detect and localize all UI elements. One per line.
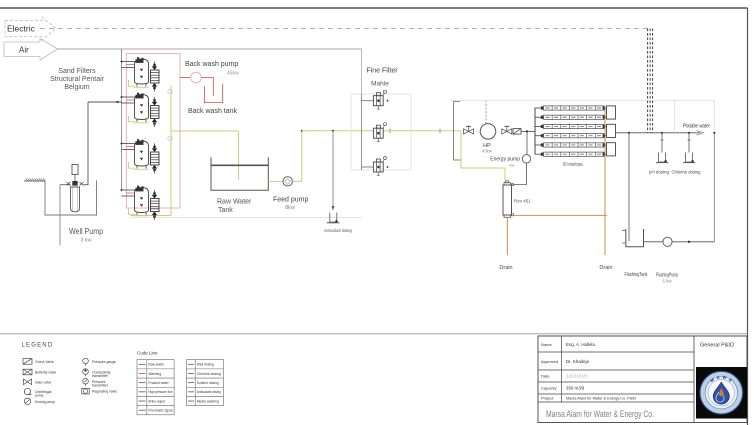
code line sample Antiscalant dosing — [188, 391, 194, 393]
code line sample Washing — [139, 372, 146, 374]
sand filter bottom header — [131, 215, 171, 217]
well pump suction stub — [60, 184, 71, 186]
svg-text:transmitter: transmitter — [92, 374, 109, 378]
group boundary divider — [674, 100, 676, 133]
membrane row M4 feed stub — [535, 135, 544, 137]
membrane row M4 vessel tube — [544, 134, 605, 138]
fine filter inlet manifold — [361, 94, 363, 170]
sand filter SF2 bottom air pipe — [134, 122, 149, 124]
svg-text:Dosing pump: Dosing pump — [35, 400, 55, 404]
fine filter FF3 body — [373, 162, 383, 172]
svg-text:Chlorine dosing: Chlorine dosing — [197, 372, 221, 376]
pressure exchanger vessel — [503, 185, 512, 215]
sand filter SF4 air lateral — [129, 209, 136, 215]
legend area divider line — [0, 333, 748, 335]
raw water tank — [211, 157, 268, 190]
svg-text:kw: kw — [510, 163, 515, 168]
antiscalant dosing drop line — [332, 131, 334, 210]
membrane row M2 outlet nub — [603, 116, 606, 119]
feed pump discharge pipe — [292, 131, 301, 182]
sand filter SF2 backwash stub — [126, 99, 134, 101]
membrane row M3 outlet nub — [603, 125, 606, 128]
fine filter FF2 cap — [376, 125, 380, 128]
code line sample Media washing — [188, 400, 194, 402]
legend symbol gate valve — [24, 379, 32, 385]
sand filter SF4 legs — [136, 213, 138, 216]
sand filter SF2 inlet line 2 — [122, 102, 136, 104]
sand filter SF1 inlet line 2 — [122, 67, 136, 69]
legend symbol butterfly valve — [23, 369, 32, 375]
sand filter SF4 strainer inlet cone — [152, 195, 157, 199]
svg-text:8kw: 8kw — [285, 205, 295, 211]
sand filter SF1 backwash stub — [126, 64, 134, 66]
legend symbol pressure transmitter — [83, 378, 89, 384]
HP pump electric dashed drop — [485, 100, 487, 123]
inlet valve V1 — [464, 129, 474, 134]
company logo water drop — [713, 382, 729, 404]
company logo middle ring — [705, 377, 737, 409]
sand filter SF1 top valve cluster — [136, 59, 144, 63]
svg-text:5 kw: 5 kw — [662, 279, 672, 284]
check valve — [513, 129, 521, 135]
raw water tank water level line — [211, 164, 268, 166]
fine filter FF1 cap — [376, 93, 380, 96]
HP pump — [480, 124, 496, 140]
svg-text:350 m3/d: 350 m3/d — [566, 386, 585, 391]
svg-text:transmitter: transmitter — [92, 384, 109, 388]
sand filter SF1 lower distributor — [140, 76, 143, 79]
fine filter FF3 cap — [376, 159, 380, 162]
instrument bubble B2 — [168, 136, 172, 140]
svg-text:Date: Date — [541, 374, 550, 379]
brine line PX to drain manifold — [514, 214, 608, 216]
fine filter FF3 internals — [376, 162, 378, 172]
fine filter FF1 drain stub — [377, 106, 379, 109]
membrane row M3 outlet stub — [604, 125, 607, 127]
title block outline — [538, 336, 747, 423]
backwash pump P-BW — [191, 72, 202, 83]
company logo inner drop — [716, 392, 724, 402]
membrane row M6 feed stub — [535, 153, 544, 155]
membrane U-bend cap rows 1-2 — [607, 106, 616, 119]
membrane concentrate drain line — [604, 107, 606, 256]
sand filter SF1 inlet junction — [121, 61, 123, 63]
svg-text:RO membrane: RO membrane — [563, 162, 583, 168]
membrane row M1 vessel tube — [544, 106, 605, 110]
product dosing drop 2 — [688, 132, 690, 134]
backwash supply pipe from filter box — [180, 77, 191, 79]
feed discharge junction — [301, 130, 303, 132]
sand filter SF3 lower distributor — [140, 158, 143, 161]
flushing tank — [626, 229, 644, 247]
svg-text:High pressure line: High pressure line — [148, 390, 172, 394]
sand filter SF2 vessel — [135, 95, 149, 120]
energy recovery feed line — [461, 131, 505, 183]
svg-text:Raw Water: Raw Water — [217, 199, 252, 206]
svg-text:pH dosing: pH dosing — [649, 170, 669, 175]
svg-text:Back wash tank: Back wash tank — [188, 108, 238, 115]
sand filter SF1 strainer top connector — [154, 62, 156, 67]
sand filter SF1 air lateral — [129, 80, 136, 86]
membrane row M5 outlet nub — [603, 143, 606, 146]
pipe check valve to membranes — [521, 130, 535, 132]
sand filter SF2 air lateral — [129, 116, 136, 122]
code line sample High pressure line — [139, 391, 146, 393]
drawing frame right border — [747, 8, 749, 425]
sand filter SF2 strainer top connector — [154, 97, 156, 102]
code line sample Pneumatic signal — [139, 409, 146, 411]
raw water tank inlet drop — [238, 131, 240, 180]
energy pump to PX pipe — [513, 163, 527, 185]
title block row lines — [538, 351, 694, 353]
legend symbol conductivity transmitter — [83, 369, 89, 375]
code line table 2 — [186, 360, 223, 406]
sand filter SF1 legs — [136, 84, 138, 87]
sand filter SF4 inlet line 2 — [122, 195, 136, 197]
drawing frame top border — [0, 7, 748, 9]
svg-text:Drain: Drain — [599, 265, 612, 271]
sand filter SF3 strainer inlet cone — [152, 148, 157, 152]
membrane row M1 outlet nub — [603, 106, 606, 109]
backwash tank symbol — [204, 84, 222, 103]
sand filter SF1 vessel — [135, 59, 149, 84]
svg-text:Pressure gauge: Pressure gauge — [92, 360, 116, 364]
dosing cup 1 — [659, 153, 666, 163]
sand filter SF3 air lateral — [129, 162, 136, 168]
membrane row M6 outlet nub — [603, 153, 606, 156]
svg-text:Mahle: Mahle — [371, 81, 389, 88]
PX drain drop — [506, 217, 508, 255]
sand filter SF4 vessel — [135, 188, 149, 213]
membrane row M3 vessel tube — [544, 124, 605, 128]
dosing branch junction — [332, 130, 334, 132]
fine filter FF1 internals — [376, 96, 378, 106]
legend symbol check valve — [23, 359, 32, 365]
dosing cup 2 — [686, 153, 693, 163]
svg-text:12/11/2020: 12/11/2020 — [566, 374, 588, 379]
code line sample Chlorine dosing — [188, 372, 194, 374]
sand filter SF1 strainer inlet cone — [152, 66, 157, 70]
sand filter SF3 inlet line 1 — [122, 143, 136, 145]
membrane U-bend cap rows 3-4 — [607, 124, 616, 137]
fine filter FF3 branch stub — [362, 166, 374, 168]
code line sample Brine reject — [139, 400, 146, 402]
instrument bubble B1 — [168, 89, 172, 93]
svg-text:Pneumatic signal: Pneumatic signal — [148, 409, 172, 413]
sand filter SF4 inlet line 1 — [122, 189, 136, 191]
backwash boundary box — [126, 54, 180, 209]
sand filter SF2 inlet line 1 — [122, 96, 136, 98]
svg-text:Feed pump: Feed pump — [273, 197, 309, 204]
sand filter SF1 bottom air pipe — [134, 86, 149, 88]
electric supply banner arrow — [5, 17, 56, 40]
well pump motor — [72, 165, 78, 175]
svg-text:FlushingTank: FlushingTank — [625, 272, 648, 278]
main feed line to fine filters — [302, 130, 373, 132]
flushing tank nozzle ticks — [622, 230, 626, 232]
svg-text:Washing: Washing — [148, 372, 161, 376]
svg-text:Media washing: Media washing — [197, 399, 219, 403]
sand filter SF2 strainer element — [151, 106, 160, 119]
product dosing drop 1 — [661, 132, 663, 134]
tee to energy pump — [526, 130, 528, 132]
svg-text:Tank: Tank — [218, 207, 233, 214]
sand filter SF2 strainer outlet cone — [152, 119, 157, 123]
sand filter SF3 strainer element — [151, 152, 160, 165]
membrane row M6 vessel tube — [544, 152, 605, 156]
svg-text:Approved: Approved — [541, 359, 558, 364]
svg-text:Brine reject: Brine reject — [148, 399, 165, 403]
svg-text:Project: Project — [541, 396, 554, 401]
sand filter outlet pipe to raw water tank — [171, 130, 239, 132]
code line sample Raw water — [139, 363, 146, 365]
svg-text:Fine Filter: Fine Filter — [366, 68, 398, 75]
svg-text:Drain: Drain — [499, 265, 512, 271]
wellhead side fitting left — [67, 182, 71, 186]
antiscalant dosing base — [327, 222, 340, 224]
svg-text:Marsa Alam for Water & Energy: Marsa Alam for Water & Energy Co. P&ID — [566, 397, 636, 401]
sand filter SF3 strainer outlet cone — [152, 165, 157, 169]
svg-text:Antiscalant dosing: Antiscalant dosing — [324, 228, 353, 233]
svg-text:Chlorine dosing: Chlorine dosing — [672, 170, 701, 175]
flushing tank feed drop — [628, 132, 630, 134]
membrane feed manifold — [534, 108, 536, 154]
sand filter SF2 inlet junction — [121, 96, 123, 98]
product water line — [616, 132, 701, 134]
air supply banner arrow — [4, 39, 58, 61]
svg-text:Sand Filters: Sand Filters — [58, 68, 96, 75]
sand filter SF3 inlet line 2 — [122, 149, 136, 151]
code line sample Product water — [139, 382, 146, 384]
fine filter FF2 drain stub — [377, 138, 379, 141]
fine filter group boundary box — [351, 94, 411, 170]
membrane row M5 feed stub — [535, 144, 544, 146]
svg-text:Well dosing: Well dosing — [197, 363, 214, 367]
membrane U-bend cap rows 5-6 — [607, 143, 616, 156]
svg-text:Code Line: Code Line — [137, 351, 158, 356]
flushing return riser — [713, 133, 715, 242]
company logo outer disc — [700, 371, 743, 414]
company logo inner disc — [708, 380, 734, 406]
ground level hatching — [24, 180, 45, 182]
legend symbol regulating valve — [82, 388, 89, 394]
legend symbol centrifugal pump — [24, 388, 30, 394]
membrane row M2 vessel tube — [544, 115, 605, 119]
svg-text:Raw water: Raw water — [148, 363, 164, 367]
bypass branch line — [454, 102, 462, 161]
legend symbol pressure gauge — [83, 358, 89, 364]
sand filter SF3 backwash stub — [126, 146, 134, 148]
well water pipe to sand filter manifold — [88, 101, 122, 103]
sand filter SF4 strainer top connector — [154, 190, 156, 195]
wellhead valve block — [72, 181, 77, 186]
svg-text:Gate valve: Gate valve — [35, 380, 51, 384]
membrane row M4 outlet nub — [603, 134, 606, 137]
well leader line — [59, 185, 61, 245]
well discharge riser — [84, 102, 89, 185]
title block logo column divider — [693, 336, 695, 423]
well pit outline — [45, 181, 97, 216]
svg-text:45kw: 45kw — [482, 149, 493, 154]
feed pump P-F — [283, 177, 292, 186]
title block label column divider — [561, 336, 563, 402]
sand filter SF4 backwash stub — [126, 192, 134, 194]
sand filter SF2 strainer drain stub — [154, 125, 156, 127]
company logo core — [719, 388, 724, 396]
fine filter FF2 body — [373, 128, 383, 138]
code line sample Well dosing — [188, 363, 194, 365]
svg-text:Butterfly valve: Butterfly valve — [35, 371, 56, 375]
membrane row M2 feed stub — [535, 116, 544, 118]
membrane row M5 outlet stub — [604, 144, 607, 146]
sand filter SF3 legs — [136, 166, 138, 169]
svg-text:Electric: Electric — [7, 24, 36, 34]
sand filter SF4 strainer drain stub — [154, 218, 156, 220]
sand filter SF1 strainer outlet cone — [152, 83, 157, 87]
svg-text:Antiscalant dosing: Antiscalant dosing — [197, 390, 221, 394]
svg-text:LEGEND: LEGEND — [22, 343, 54, 349]
membrane row M3 feed stub — [535, 125, 544, 127]
sand filter SF4 inlet junction — [121, 189, 123, 191]
main feed line after fine filter — [384, 130, 461, 132]
sand filter SF2 top valve cluster — [136, 95, 144, 99]
svg-text:pump: pump — [35, 394, 44, 398]
legend symbol dosing pump — [24, 398, 30, 404]
fine filter FF1 body — [373, 96, 383, 106]
sand filter SF2 upper distributor — [140, 104, 143, 107]
discharge valve V2 — [502, 129, 512, 134]
air supply line — [58, 48, 362, 50]
fine filter FF1 branch stub — [362, 100, 374, 102]
sand filter SF3 strainer top connector — [154, 144, 156, 149]
svg-text:General P&ID: General P&ID — [700, 343, 734, 349]
sand filter inlet and air manifold — [121, 49, 123, 190]
code line sample Sodium dosing — [188, 382, 194, 384]
flange tick on feed line — [389, 129, 391, 133]
potable water arrow — [697, 131, 704, 135]
svg-text:Name: Name — [541, 342, 552, 347]
company logo core squiggle — [720, 390, 722, 395]
svg-text:Marsa Alam for Water & Energy: Marsa Alam for Water & Energy Co. — [546, 409, 654, 420]
sand filter outlet manifold — [170, 86, 172, 216]
antiscalant dosing arrowhead — [332, 206, 335, 211]
svg-text:Air: Air — [19, 46, 29, 55]
flange tick on feed line 2 — [439, 129, 441, 133]
svg-text:Dr. Khadeja: Dr. Khadeja — [566, 359, 590, 364]
electric supply dashed line — [40, 28, 650, 30]
membrane row M1 outlet stub — [604, 107, 607, 109]
svg-text:Regulating valve: Regulating valve — [92, 390, 117, 394]
sand filter SF3 bottom air pipe — [134, 168, 149, 170]
electric drop lines to plant motors — [647, 29, 649, 133]
fine filter FF3 vent circle — [384, 157, 387, 160]
svg-text:Structural Pentair: Structural Pentair — [50, 76, 105, 83]
svg-text:Rev 451: Rev 451 — [514, 199, 531, 204]
svg-text:Back wash pump: Back wash pump — [185, 61, 238, 68]
sand filter SF3 top valve cluster — [136, 141, 144, 145]
sand filter SF2 legs — [136, 120, 138, 123]
membrane row M2 outlet stub — [604, 116, 607, 118]
antiscalant dosing cup — [330, 213, 337, 223]
wellhead side fitting right — [80, 182, 84, 186]
sand filter SF4 lower distributor — [140, 204, 143, 207]
pressure exchanger top side port — [512, 184, 514, 186]
svg-text:Eng. A. Hallela: Eng. A. Hallela — [566, 342, 595, 347]
flushing pump — [663, 237, 672, 246]
svg-text:Sodium dosing: Sodium dosing — [197, 381, 219, 385]
sand filter SF4 strainer element — [151, 199, 160, 212]
energy pump — [522, 155, 530, 163]
sand filter SF1 inlet line 1 — [122, 61, 136, 63]
svg-text:45kw: 45kw — [227, 71, 239, 77]
well pump body — [71, 187, 80, 212]
fine filter FF2 internals — [376, 128, 378, 138]
well pump body inner lines — [73, 187, 78, 211]
flushing pump discharge — [672, 241, 714, 243]
backwash pump discharge pipe — [201, 78, 213, 96]
sand filter SF1 upper distributor — [140, 69, 143, 72]
sand filter SF3 strainer drain stub — [154, 171, 156, 173]
fine filter FF1 vent circle — [384, 90, 387, 93]
fine filter outlet dots — [387, 100, 389, 102]
membrane row M5 vessel tube — [544, 143, 605, 147]
sand filter SF1 strainer drain stub — [154, 89, 156, 91]
svg-text:Potable water: Potable water — [683, 124, 710, 130]
svg-text:Product water: Product water — [148, 381, 169, 385]
sand filter SF3 upper distributor — [140, 151, 143, 154]
sand filter SF2 strainer inlet cone — [152, 102, 157, 106]
svg-text:Capacity: Capacity — [541, 386, 557, 391]
svg-text:Energy pump: Energy pump — [490, 157, 520, 163]
post treatment group boundary top — [451, 99, 714, 101]
svg-text:Well Pump: Well Pump — [69, 227, 103, 236]
sand filter SF4 strainer outlet cone — [152, 212, 157, 216]
membrane row M4 outlet stub — [604, 135, 607, 137]
sand filter SF4 bottom air pipe — [134, 215, 149, 217]
sand filter SF4 top valve cluster — [136, 188, 144, 192]
fine filter FF2 vent circle — [384, 123, 387, 126]
svg-text:Check Valve: Check Valve — [35, 360, 54, 364]
sand filter SF2 lower distributor — [140, 111, 143, 114]
fine filter FF3 drain stub — [377, 172, 379, 175]
pretreatment group boundary bottom — [129, 217, 362, 219]
air line drop to fine filter manifold — [361, 49, 363, 94]
flushing pump suction — [644, 241, 664, 243]
sand filter SF1 strainer element — [151, 70, 160, 83]
svg-text:3 kw: 3 kw — [80, 238, 91, 244]
sand filter SF3 inlet junction — [121, 143, 123, 145]
code line table 1 — [137, 360, 174, 415]
sand filter SF4 upper distributor — [140, 197, 143, 200]
feed pump suction pipe — [268, 180, 283, 182]
well pump motor shaft — [74, 175, 76, 182]
pressure exchanger bottom side port — [512, 214, 514, 216]
membrane row M6 outlet stub — [604, 153, 607, 155]
company logo background — [696, 367, 747, 419]
membrane row M1 feed stub — [535, 107, 544, 109]
svg-text:Belgium: Belgium — [64, 84, 89, 91]
sand filter SF3 vessel — [135, 141, 149, 166]
post treatment boundary right edge — [713, 100, 715, 133]
junction on well water pipe — [116, 101, 118, 103]
